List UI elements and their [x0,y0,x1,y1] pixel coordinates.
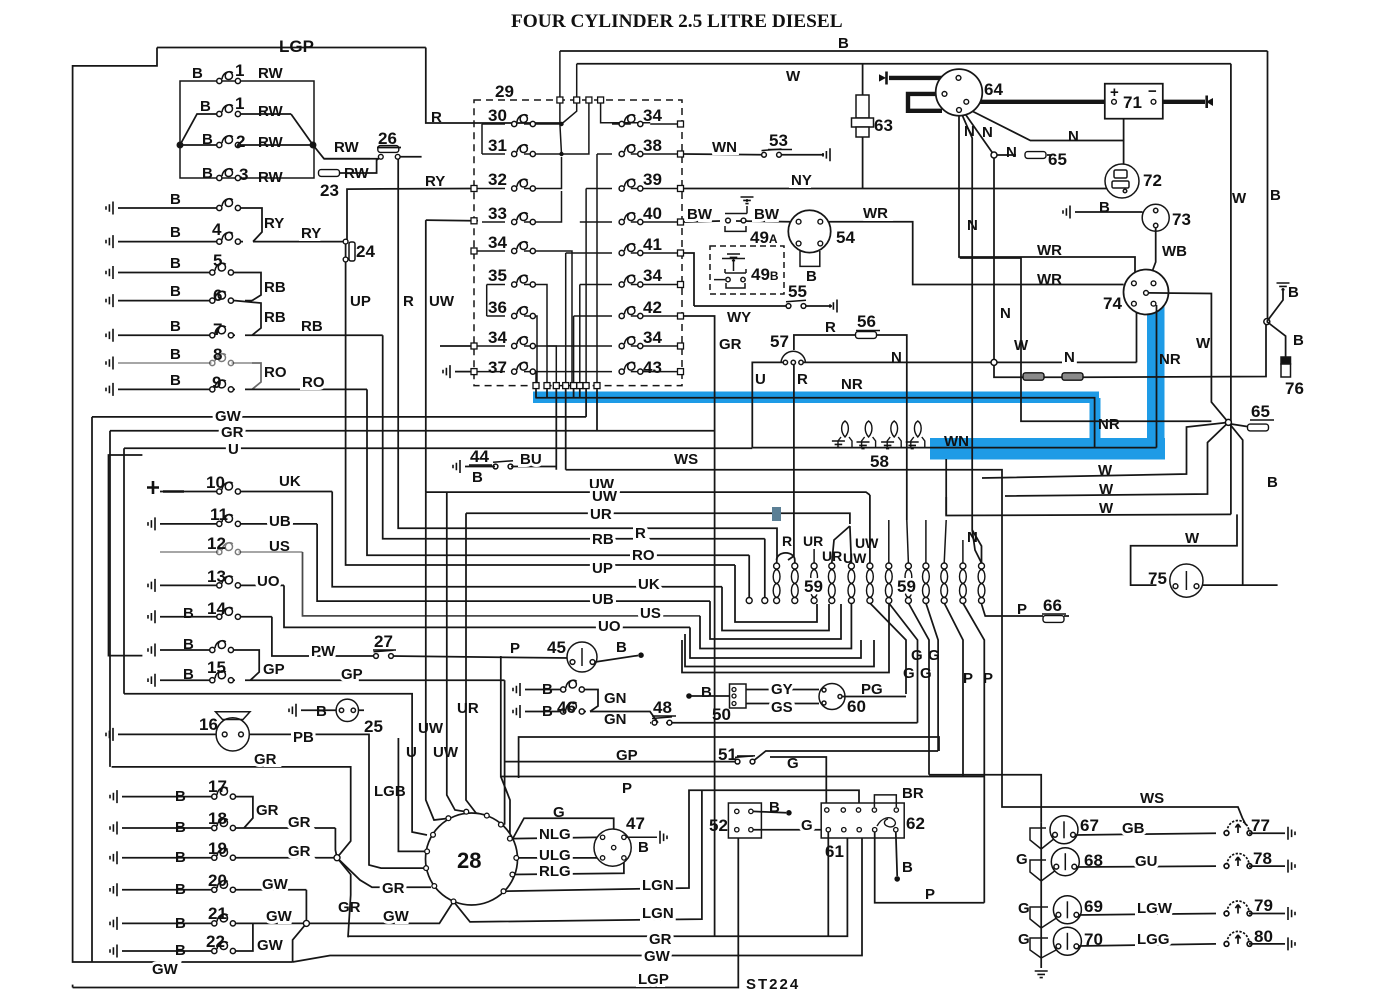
blue vertical to 74 [1147,304,1165,444]
fuse 56 out [877,335,907,520]
svg-text:UW: UW [418,720,444,737]
fuse coil 34R8 [619,337,643,349]
62 B dot [894,876,900,882]
fuse coil 34R [619,115,643,127]
svg-text:R: R [782,533,792,549]
col bottoms drop P1 [944,603,963,777]
svg-text:R: R [403,293,414,310]
svg-text:13: 13 [207,567,226,586]
svg-text:W: W [1098,462,1113,479]
gauge 70 [1053,927,1081,955]
svg-text:GR: GR [256,802,279,819]
RB bracket 6-7 [235,301,261,336]
row 21 wire [122,922,306,924]
coil 7 [210,326,234,338]
svg-text:N: N [1064,349,1075,366]
svg-text:72: 72 [1143,171,1162,190]
63 lower lead [862,137,864,189]
svg-text:US: US [640,605,661,622]
svg-text:24: 24 [356,242,375,261]
svg-text:G: G [911,647,923,664]
svg-text:B: B [1293,332,1304,349]
U lower run [124,694,427,835]
row35-36 left link [486,285,488,317]
ground lamp25 [289,704,296,717]
W node diagonals [1005,422,1228,496]
coil 13 [217,576,241,588]
svg-text:11: 11 [210,505,228,524]
svg-text:B: B [170,318,181,335]
svg-text:G: G [787,755,799,772]
U long wire [124,447,752,449]
coil 17 [212,787,236,799]
GR bottom wire [348,833,847,936]
fuse coil 38 [619,145,643,157]
GY wire [746,689,819,691]
col bottoms drop G3 [908,603,929,775]
ground row5 [106,266,113,279]
ground row4a [106,202,113,215]
ground 37 [443,365,450,378]
svg-text:G: G [1016,851,1028,868]
svg-text:B: B [472,469,483,486]
svg-text:NR: NR [1159,351,1181,368]
W box top wire [577,63,1231,65]
fuse 24 body [349,242,355,261]
RO wire down [748,555,750,597]
svg-text:59: 59 [804,577,823,596]
relay 50 box [730,684,747,708]
svg-text:58: 58 [870,452,889,471]
svg-text:PB: PB [293,729,314,746]
fuse 65 [1025,152,1046,159]
svg-text:1: 1 [235,61,244,80]
svg-text:52: 52 [709,816,728,835]
svg-text:3: 3 [239,165,248,184]
UW drop col6 [869,495,871,563]
fuse coil 41 [619,244,643,256]
svg-text:B: B [175,942,186,959]
underline 44 [469,464,492,466]
coil 15b [210,671,234,683]
lamp coil 2 (row3) [217,136,241,148]
NR black line in blue bus [535,398,1094,448]
61 pins bottom [826,828,898,832]
71 arrow [1206,98,1213,106]
N horizontal wire [801,361,1137,363]
fuse 66 [1043,616,1064,623]
svg-text:LGN: LGN [642,905,674,922]
svg-text:UK: UK [279,473,301,490]
UR long wire [466,513,850,524]
U wire from 57 [752,362,783,447]
coil 21 [212,914,236,926]
PB wire [249,734,428,868]
svg-text:9: 9 [212,373,221,392]
svg-text:LGN: LGN [642,877,674,894]
node left junction [177,142,182,147]
svg-text:N: N [1000,305,1011,322]
drop GW [585,389,587,417]
74 center pin [1144,291,1149,296]
hub pins [424,809,519,904]
svg-text:69: 69 [1084,897,1103,916]
LGG wire [1078,944,1216,946]
US drop [303,552,701,616]
svg-text:31: 31 [488,136,507,155]
svg-text:UW: UW [433,744,459,761]
svg-text:B: B [1270,187,1281,204]
svg-text:RO: RO [632,547,655,564]
svg-text:10: 10 [206,473,225,492]
P hub corner [501,777,510,839]
feed dot 50 [686,693,692,699]
svg-text:RO: RO [302,374,325,391]
WB wire [1152,228,1156,272]
UW top corner [426,219,473,222]
ground row17 [110,790,117,803]
64 pins [956,76,961,81]
svg-text:RB: RB [264,279,286,296]
svg-text:UR: UR [803,533,823,549]
wire B to 50 [691,695,730,697]
ignition switch 54 [788,210,830,252]
row34R8 wire [547,345,679,347]
svg-text:B: B [192,65,203,82]
svg-text:34: 34 [643,106,662,125]
BW row wire [684,221,790,222]
row32 wire [474,157,562,189]
bottom bundle verts [566,154,597,386]
lamp coil 1 (row1) [217,72,241,84]
svg-text:17: 17 [208,777,227,796]
GR long wire [110,430,715,432]
svg-text:UP: UP [592,560,613,577]
45 end dot [638,652,644,658]
switch 48 [652,717,672,725]
svg-text:LGG: LGG [1137,931,1170,948]
flame lamp 58a [842,421,849,437]
svg-text:28: 28 [457,848,481,873]
ground 49A top [741,197,754,204]
svg-text:32: 32 [488,170,507,189]
svg-text:WN: WN [712,139,737,156]
54 pins [796,219,801,224]
svg-text:65: 65 [1048,150,1067,169]
GP hub drop [502,824,505,826]
svg-text:G: G [928,647,940,664]
svg-text:ST224: ST224 [746,976,800,993]
svg-text:21: 21 [208,904,227,923]
B right vertical [1267,51,1269,322]
W feed drop [576,64,578,99]
64 pin drop WR [959,111,1135,273]
svg-text:B: B [175,788,186,805]
71 terminal bar [1205,96,1208,109]
fuse 26 pins [378,154,383,159]
svg-text:53: 53 [769,131,788,150]
svg-text:B: B [838,35,849,52]
61 pin1 drop [827,832,829,936]
svg-text:N: N [1006,144,1017,161]
svg-text:N: N [982,124,993,141]
box left squares [471,186,477,192]
row34R wire [580,284,679,286]
headlamp 75 [1170,564,1203,597]
fuse 23 [319,170,340,177]
flame lamp 58c [891,421,898,437]
svg-text:25: 25 [364,717,383,736]
coil 46b [561,702,585,714]
lamp coil 3 (row4) [217,169,241,181]
switch 27 [374,650,394,658]
wire 73 ground [1075,211,1143,213]
64 U loop [908,94,943,111]
svg-text:GP: GP [263,661,285,678]
UB drop [317,524,710,601]
svg-text:W: W [786,68,801,85]
svg-text:UK: UK [638,576,660,593]
svg-text:B: B [701,684,712,701]
64 ground arrow [885,72,888,85]
54 base tab [800,251,820,266]
coil 22 [212,942,236,954]
svg-text:WR: WR [863,205,888,222]
G diag 69 [1030,907,1058,928]
78 ground wire [1249,865,1285,867]
svg-text:B: B [175,915,186,932]
svg-text:P: P [622,780,632,797]
resistor 79 [1224,901,1252,916]
svg-text:46: 46 [557,698,576,717]
svg-text:50: 50 [712,705,731,724]
GU wire [1076,865,1216,868]
svg-text:18: 18 [208,809,227,828]
svg-text:B: B [183,605,194,622]
svg-text:GR: GR [649,931,672,948]
GW junction to hub [306,901,453,923]
drop 579 [579,389,581,398]
row 15a wire [160,649,235,651]
col bottoms drop G1 [870,603,906,694]
svg-text:60: 60 [847,697,866,716]
drop NR into blue [535,389,537,398]
RY bracket 4 [242,208,262,242]
LGN1 wire [504,790,860,891]
svg-text:ULG: ULG [539,847,571,864]
64 pin fan N1 [960,110,982,563]
tw col5 [848,563,855,604]
svg-text:GW: GW [152,961,179,978]
fuse coil 32 [512,179,536,191]
fuse box dashed outline [474,100,682,386]
GR bracket 17 [237,797,253,828]
svg-text:8: 8 [213,345,222,364]
switch 55 [786,300,806,308]
svg-text:56: 56 [857,312,876,331]
RB wire down [764,539,766,597]
WS gauge wire [1022,807,1246,825]
loop UO [690,627,861,658]
61 pins top [825,808,899,812]
GR junction continue down [337,858,351,938]
row41 wire [566,252,679,254]
svg-text:WR: WR [1037,271,1062,288]
B feed drop left [559,51,561,99]
UO drop [284,585,690,627]
svg-text:B: B [170,372,181,389]
underline 66 [1042,613,1066,615]
41 to WY drop [684,253,786,306]
GW bottom wire [293,833,862,962]
drop 573 [573,389,575,398]
svg-text:B: B [902,859,913,876]
79 ground wire [1249,913,1285,915]
PW drop [272,617,376,656]
UK drop [332,492,722,587]
col bottoms drop G4 [926,603,938,751]
ULG wire [516,857,602,859]
64 pin fan N3 [962,106,1124,164]
svg-text:GW: GW [644,948,671,965]
GS wire [746,703,819,705]
ground row19 [110,851,117,864]
svg-text:UB: UB [592,591,614,608]
svg-text:20: 20 [208,871,227,890]
W wire from 1021 [960,258,1212,421]
junction B right [1264,319,1270,325]
ground row15b [148,674,155,687]
svg-text:GW: GW [215,408,242,425]
wire diagonal row2 to right node [291,114,313,145]
62 curl [877,818,895,827]
64 pin fan N2 to junction [961,108,994,155]
row 14 wire [160,616,272,618]
svg-text:UW: UW [843,550,867,566]
ground row15a [148,644,155,657]
loop US [700,604,851,649]
LGP bottom wire [73,838,739,987]
row 7 wire [118,334,383,336]
col7 top stub [888,520,890,563]
svg-text:B: B [175,849,186,866]
G wire to lamps [929,775,1041,823]
svg-text:RY: RY [301,225,321,242]
svg-text:P: P [963,670,973,687]
svg-text:36: 36 [488,298,507,317]
svg-text:LGP: LGP [279,37,314,56]
row 22 wire [122,950,244,952]
svg-text:5: 5 [213,251,222,270]
coil 14 [217,607,241,619]
W branch 75 loop [1131,514,1237,585]
loop UB [710,601,841,639]
svg-text:59: 59 [897,577,916,596]
ground 47 [660,831,667,844]
coil 4a [217,199,241,211]
col bottoms drop P2 [963,603,984,903]
loop UK [722,587,829,631]
svg-text:G: G [1018,931,1030,948]
coil 15a [210,641,234,653]
horn 16 body [216,712,251,751]
B top wire [560,50,1268,52]
64 to 71 thick bar [968,100,1113,104]
svg-text:WN: WN [944,433,969,450]
svg-text:B: B [616,639,627,656]
ground 46b [513,705,520,718]
fuse coil 37 [512,362,536,374]
ground 77 [1288,827,1295,840]
UR junction drop col4 [832,526,850,563]
svg-text:79: 79 [1254,896,1273,915]
svg-text:65: 65 [1251,402,1270,421]
svg-text:NR: NR [841,376,863,393]
row42 wire [574,315,680,317]
svg-text:R: R [825,319,836,336]
tw col1 [773,563,780,604]
switch 49B [714,259,746,289]
row 17 wire [122,796,237,798]
gauge 67 [1050,816,1078,844]
GW long wire left drop [91,417,93,962]
fuse coil 30 [512,115,536,127]
svg-text:67: 67 [1080,816,1099,835]
row 12 wire (faint) [160,551,303,553]
UP vertical [346,262,735,565]
UW second vertical [447,492,467,812]
GP drop to 51 and hub [505,680,737,824]
svg-text:RB: RB [592,531,614,548]
svg-text:38: 38 [643,136,662,155]
fuse 56 [856,332,877,339]
lamp box 1-2-3 rect [180,81,314,178]
svg-text:GN: GN [604,711,627,728]
fuse 26 [378,146,399,153]
distributor 74 [1124,270,1169,315]
fuse 24 pins [343,239,348,244]
lamp coil 1 (row2) [217,105,241,117]
svg-text:6: 6 [213,286,222,305]
coil 12 [217,543,241,555]
node W junction [1225,419,1231,425]
svg-text:GS: GS [771,699,793,716]
svg-text:RW: RW [334,139,360,156]
svg-text:12: 12 [207,534,226,553]
svg-text:B: B [183,666,194,683]
row33 wire [474,191,562,222]
svg-text:UW: UW [592,488,618,505]
col11 top stub [962,540,964,563]
svg-text:GR: GR [719,336,742,353]
svg-text:74: 74 [1103,294,1122,313]
row 5 wire [118,272,235,274]
gauge 68 [1051,848,1079,876]
fuse 23 hook [340,157,381,173]
switch 46 rows [525,690,918,723]
GP bracket 15 [235,650,259,680]
svg-text:UP: UP [350,293,371,310]
svg-text:WS: WS [1140,790,1164,807]
svg-text:35: 35 [488,266,507,285]
svg-text:34: 34 [488,328,507,347]
row30 vert link [481,124,483,154]
ground row20 [110,883,117,896]
resistor 77 [1224,821,1252,836]
GW long wire [92,416,586,418]
svg-text:UW: UW [855,535,879,551]
svg-text:G: G [903,665,915,682]
